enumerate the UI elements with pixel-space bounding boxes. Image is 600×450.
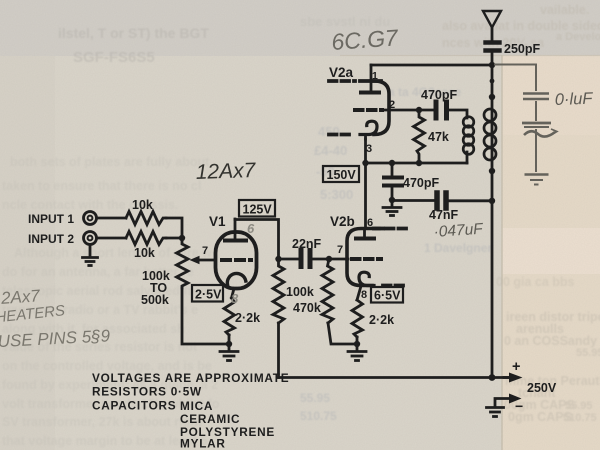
svg-text:·047uF: ·047uF	[433, 220, 485, 240]
label 250V	[527, 381, 557, 395]
V2b grid dashes	[352, 257, 381, 261]
main vertical line	[491, 53, 494, 378]
input jack J2	[84, 232, 97, 245]
faded bluish mid fragments	[300, 85, 492, 423]
junction dot 47k bottom	[416, 160, 422, 166]
V2a top dashes	[329, 79, 355, 83]
label minus	[515, 398, 523, 414]
pot wiper arrow	[190, 256, 214, 264]
svg-text:1 Davelgner: 1 Davelgner	[424, 241, 492, 255]
bottom rail	[279, 376, 510, 379]
label 2.2k V2b	[369, 313, 394, 327]
V2a grid lead pin2	[381, 109, 434, 112]
V2a anode plate pin1	[361, 81, 379, 93]
svg-text:0·luF: 0·luF	[555, 90, 594, 109]
junction dot antenna/pin1	[489, 62, 495, 68]
V2a pin1 lead up	[370, 65, 373, 81]
resistor R4 100k	[273, 259, 284, 323]
wire R5 bottom	[328, 323, 357, 344]
pencil capacitor 0.1uF drawing	[494, 65, 557, 185]
V2a grid dashes	[355, 108, 382, 112]
svg-text:that voltage margin to be at l: that voltage margin to be at least 5	[2, 434, 208, 448]
svg-text:125V: 125V	[243, 203, 273, 217]
input jack J1	[84, 212, 97, 225]
ground C3	[383, 200, 401, 216]
V2b top line and dashes	[374, 227, 409, 231]
resistor R2 10k	[126, 232, 166, 245]
node B junction	[275, 256, 281, 262]
svg-text:55.95: 55.95	[300, 391, 330, 405]
V2b grid wire	[329, 258, 348, 261]
svg-text:250V: 250V	[527, 381, 557, 395]
arrow 250V plus	[504, 373, 523, 383]
svg-text:150V: 150V	[327, 168, 357, 182]
wire input1 to R1	[97, 217, 127, 220]
pencil cap plates upper	[523, 94, 549, 100]
pencil HEATERS	[0, 302, 66, 326]
capacitor C2 470pF	[436, 102, 447, 118]
svg-text:470pF: 470pF	[403, 176, 439, 190]
wire C1 to node C	[313, 258, 330, 261]
ground at input 2	[83, 245, 98, 266]
handwritten ink 12AX7	[195, 159, 257, 184]
svg-text:250pF: 250pF	[504, 42, 540, 56]
svg-text:CAPACITORS: CAPACITORS	[92, 399, 176, 413]
junction dot C3 bottom	[389, 197, 395, 203]
wire pin1 to antenna line	[371, 64, 492, 67]
label INPUT 2	[28, 232, 74, 246]
V2b pin6 lead from V2a cathode	[364, 139, 367, 229]
svg-text:8: 8	[361, 289, 367, 301]
svg-text:47k: 47k	[428, 130, 449, 144]
svg-text:6: 6	[367, 217, 373, 229]
svg-text:1: 1	[372, 70, 378, 82]
faded left column text	[2, 155, 220, 448]
pin 8 V2b	[361, 289, 367, 301]
junction dot coil upper	[489, 94, 495, 100]
wire input2 to R2	[97, 237, 127, 240]
pin 3 V2a	[366, 143, 372, 155]
label 100k TO 500k	[141, 269, 170, 307]
V1 grid dashes	[222, 258, 251, 262]
label 470k R5	[293, 301, 321, 315]
inductor L1	[463, 117, 474, 155]
svg-text:V2a: V2a	[329, 65, 354, 80]
wire C2 to L1	[449, 110, 467, 118]
junction dot 47nF node	[489, 198, 495, 204]
pin 2 V2a	[389, 99, 395, 111]
label 100k R4	[286, 285, 314, 299]
pin 7 V2b	[337, 244, 343, 256]
wire R2 to node A	[166, 237, 182, 240]
box 2.5V	[192, 285, 223, 302]
wire R1 to node A	[166, 218, 182, 238]
svg-text:500k: 500k	[141, 293, 169, 307]
label 470pF C3	[403, 176, 439, 190]
label 47k	[428, 130, 449, 144]
label 22nF	[292, 237, 322, 251]
pencil wire bottom	[535, 129, 537, 172]
svg-text:22nF: 22nF	[292, 237, 322, 251]
junction dot R5/R6	[354, 341, 360, 347]
label 10k R2	[134, 246, 155, 260]
note text	[92, 371, 289, 450]
label V2a	[329, 65, 354, 80]
svg-text:RESISTORS 0·5W: RESISTORS 0·5W	[92, 385, 202, 399]
box 6.5V	[371, 287, 403, 303]
junction dot pin2 node	[416, 107, 422, 113]
svg-text:510.75: 510.75	[563, 412, 597, 424]
junction dot 470pF2 top	[389, 160, 395, 166]
resistor R1 10k	[126, 212, 166, 225]
V2a top line	[360, 79, 381, 83]
junction dot rail	[489, 374, 496, 381]
pin 6 V1 pencil	[247, 221, 255, 236]
box 125V	[239, 200, 275, 217]
pin 8 V1 pencil	[231, 291, 239, 306]
wire R3 to ground	[228, 335, 231, 351]
tube V1 envelope	[216, 232, 257, 289]
wire R6 to ground	[356, 337, 359, 351]
junction dot pot/cathode	[226, 341, 232, 347]
node C junction	[326, 256, 332, 262]
svg-text:MICA: MICA	[180, 399, 213, 413]
wire C3 node to C4	[392, 199, 434, 202]
label plus	[512, 359, 520, 375]
inductor L2	[484, 109, 496, 160]
svg-text:510.75: 510.75	[300, 409, 337, 423]
pin 1 V2a	[372, 70, 378, 82]
svg-text:6C.G7: 6C.G7	[331, 24, 400, 55]
svg-text:Although a short length of wir: Although a short length of wire w	[14, 246, 212, 260]
pencil wire mid	[535, 101, 537, 121]
svg-text:100k: 100k	[286, 285, 314, 299]
wire box bottom	[366, 162, 468, 165]
svg-text:8: 8	[231, 291, 239, 306]
antenna	[483, 11, 501, 40]
V2a envelope arc	[374, 81, 389, 135]
V1 cathode	[227, 273, 245, 298]
faded show-through text top	[58, 14, 390, 66]
V2b cathode	[357, 272, 408, 300]
capacitor C5 250pF	[486, 43, 500, 51]
svg-text:vailable.: vailable.	[540, 3, 589, 17]
svg-text:a Developer: a Developer	[556, 31, 600, 43]
capacitor C4 47nF	[437, 193, 446, 208]
arrow minus	[495, 394, 522, 408]
svg-text:INPUT 2: INPUT 2	[28, 232, 74, 246]
pencil USE PINS 5&9	[0, 326, 111, 351]
label 2.2k V1	[235, 311, 260, 325]
label V1	[209, 214, 226, 229]
svg-text:3: 3	[366, 143, 372, 155]
svg-text:470k: 470k	[293, 301, 321, 315]
wire pot bottom	[182, 288, 229, 344]
svg-text:V2b: V2b	[330, 214, 355, 229]
pencil 12AX7 left	[0, 286, 41, 308]
svg-text:470pF: 470pF	[421, 88, 457, 102]
svg-text:+: +	[512, 359, 520, 375]
label V2b	[330, 214, 355, 229]
svg-text:0 an COSSandy: 0 an COSSandy	[504, 334, 597, 348]
svg-text:£4-40: £4-40	[314, 143, 347, 158]
svg-text:taken to ensure that there is: taken to ensure that there is no cl	[2, 179, 201, 193]
svg-text:2: 2	[389, 99, 395, 111]
V1 anode	[225, 219, 246, 241]
svg-text:INPUT 1: INPUT 1	[28, 212, 74, 226]
svg-text:55.95: 55.95	[576, 347, 600, 359]
pencil cap plates lower	[522, 123, 551, 127]
junction dot coil top	[490, 79, 495, 84]
capacitor C1 22nF	[301, 251, 310, 267]
svg-text:CERAMIC: CERAMIC	[180, 412, 240, 426]
label 47nF	[429, 208, 459, 222]
pin 7 V1	[202, 245, 208, 257]
junction dot coil bottom	[489, 168, 495, 174]
V2a cathode	[329, 121, 377, 139]
V2b anode plate pin6	[356, 229, 374, 239]
pencil wire top	[494, 65, 536, 92]
wire node B to C1	[279, 258, 299, 261]
faded right column text	[442, 3, 600, 424]
handwritten ink 6C.G7	[331, 24, 400, 55]
svg-text:00 gia ca bbs: 00 gia ca bbs	[496, 275, 575, 289]
svg-text:47nF: 47nF	[429, 208, 459, 222]
box 150V	[323, 166, 359, 182]
svg-text:VOLTAGES ARE APPROXIMATE: VOLTAGES ARE APPROXIMATE	[92, 371, 289, 385]
ground V1 cathode	[220, 352, 238, 361]
pencil annotations	[0, 90, 594, 351]
pencil .047uF	[433, 220, 485, 240]
svg-text:450: 450	[318, 124, 340, 139]
svg-text:7: 7	[202, 245, 208, 257]
svg-text:MYLAR: MYLAR	[180, 437, 226, 450]
capacitor C3 470pF lower	[384, 163, 402, 200]
ground V2b cathode	[348, 352, 366, 361]
svg-text:ilstel, T or ST) the BGT: ilstel, T or ST) the BGT	[58, 25, 209, 41]
svg-text:SV transformer, 27k is about r: SV transformer, 27k is about right	[2, 415, 203, 429]
resistor R5 470k	[322, 259, 333, 323]
svg-text:6: 6	[247, 221, 255, 236]
pencil ground	[525, 175, 549, 185]
label 10k R1	[132, 198, 153, 212]
pin 6 V2b	[367, 217, 373, 229]
label 250pF	[504, 42, 540, 56]
node A junction	[179, 235, 185, 241]
svg-text:12Ax7: 12Ax7	[195, 159, 257, 184]
svg-text:7: 7	[337, 244, 343, 256]
svg-text:6·5V: 6·5V	[374, 289, 401, 303]
resistor R7 47k	[414, 110, 425, 163]
pencil squiggle	[524, 129, 557, 137]
junction dot box left	[362, 160, 368, 166]
svg-text:SGF-FS6S5: SGF-FS6S5	[73, 49, 155, 66]
wire V1 anode to 22nF node	[235, 220, 279, 260]
svg-text:5:300: 5:300	[320, 187, 353, 202]
wire R4 to rail	[277, 323, 280, 378]
label INPUT 1	[28, 212, 74, 226]
svg-text:−: −	[515, 398, 523, 414]
label 470pF C2	[421, 88, 457, 102]
wire L1 bottom	[466, 152, 469, 163]
resistor R6 2.2k V2b cathode	[352, 300, 363, 337]
wire C4 to main line	[449, 199, 492, 202]
potentiometer VR1 100k-500k	[177, 238, 189, 288]
svg-text:both sets of plates are fully: both sets of plates are fully about	[10, 155, 210, 169]
svg-text:2·2k: 2·2k	[369, 313, 394, 327]
svg-text:10k: 10k	[134, 246, 155, 260]
V2b envelope arc	[347, 229, 379, 286]
resistor R3 2.2k V1 cathode	[224, 298, 235, 335]
ground minus	[487, 408, 504, 417]
svg-text:2·2k: 2·2k	[235, 311, 260, 325]
svg-text:10k: 10k	[132, 198, 153, 212]
svg-text:2·5V: 2·5V	[195, 288, 222, 302]
svg-text:V1: V1	[209, 214, 226, 229]
pencil 0.1uF label	[555, 90, 594, 109]
